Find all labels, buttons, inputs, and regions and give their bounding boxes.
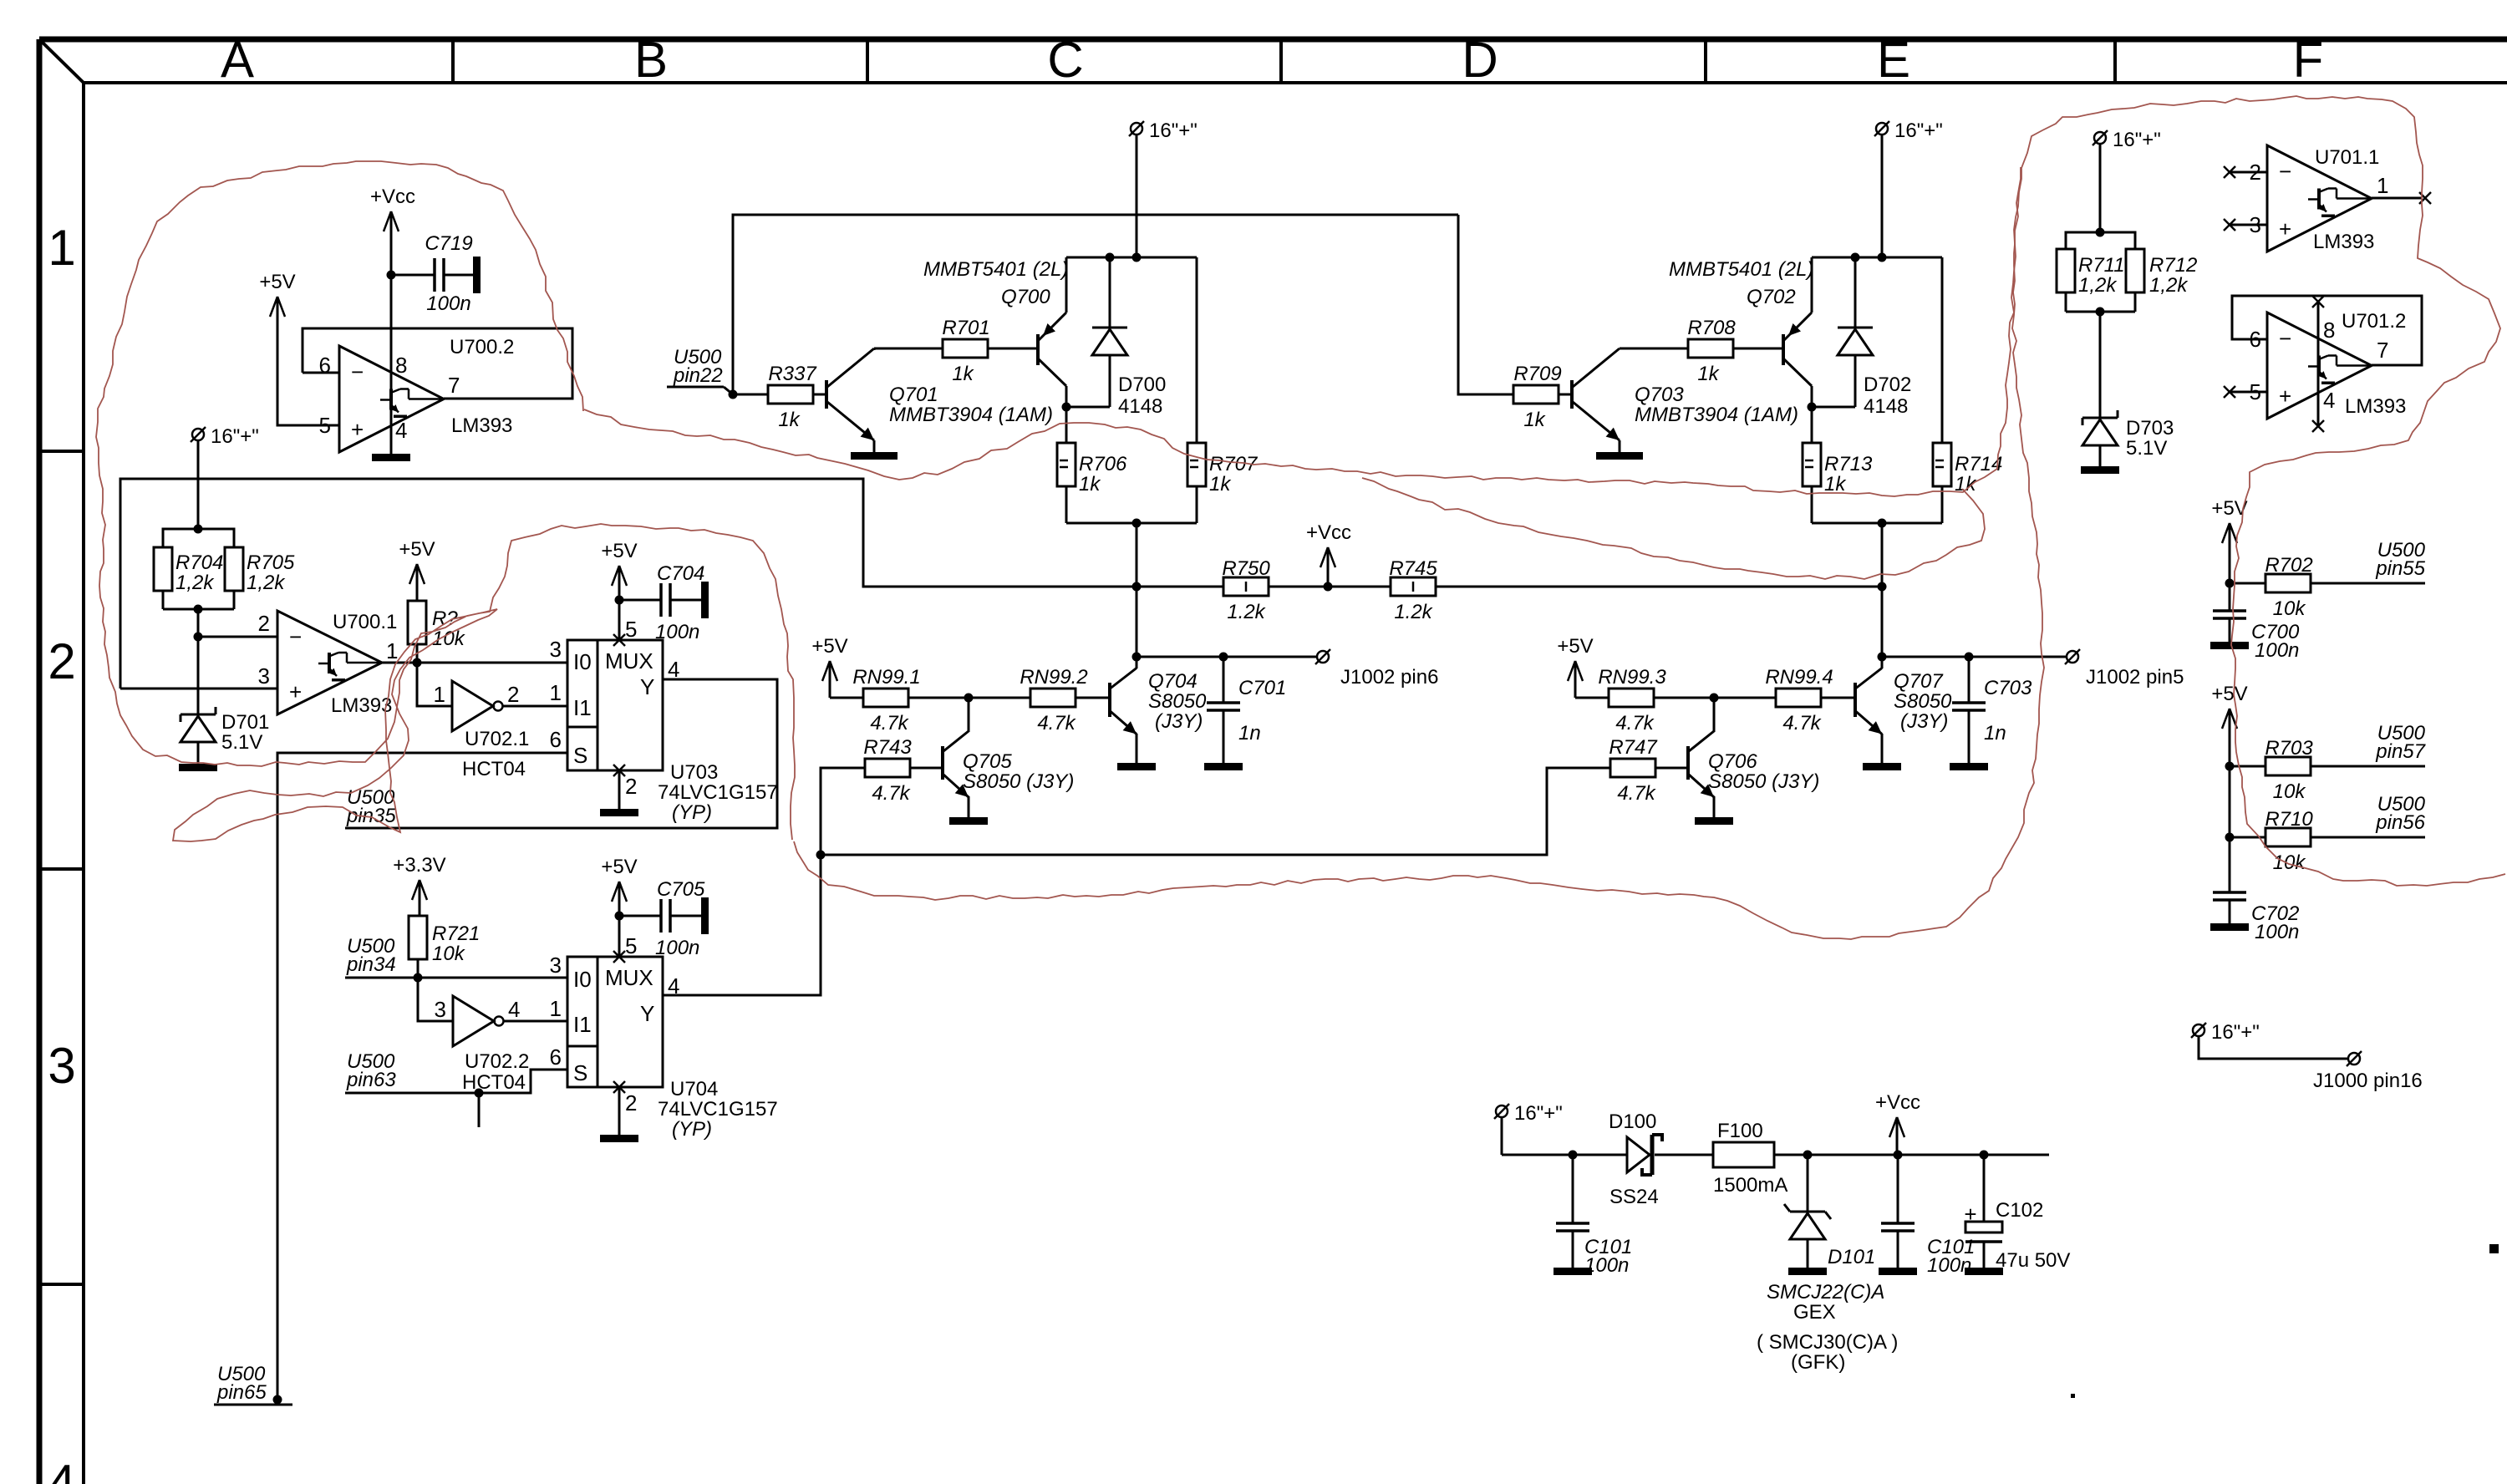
svg-text:3: 3: [48, 1038, 75, 1094]
node Vcc/C719 junction: [387, 271, 396, 280]
wire R743 left to Y-bus riser: [821, 768, 865, 855]
svg-text:I1: I1: [573, 695, 592, 720]
terminal 16"+" (A section): [191, 425, 259, 448]
node +Vcc bus junction: [1324, 582, 1333, 592]
wire junction to R337: [733, 394, 768, 396]
resistor RN99.1 4.7k: [852, 666, 920, 734]
red marker outline (left sections): [96, 161, 795, 841]
svg-text:2: 2: [258, 611, 270, 636]
svg-text:D700: D700: [1118, 374, 1166, 396]
svg-text:Y: Y: [640, 674, 654, 699]
wire U703 S to pin65 riser: [277, 753, 567, 1400]
svg-text:LM393: LM393: [2345, 395, 2406, 418]
wire node to inverter U702.2: [418, 978, 453, 1021]
svg-text:R705: R705: [247, 551, 295, 574]
node pin2 tap: [194, 633, 203, 642]
svg-text:Q705: Q705: [963, 750, 1012, 773]
svg-text:74LVC1G157: 74LVC1G157: [658, 1098, 778, 1121]
transistor Q700 MMBT5401 (2L): [923, 258, 1068, 386]
svg-text:1k: 1k: [778, 409, 801, 431]
svg-text:4: 4: [48, 1455, 75, 1484]
node RN99 junction / Q706 collector: [1710, 694, 1719, 703]
svg-text:R711: R711: [2078, 254, 2125, 277]
resistor R703 10k: [2230, 737, 2313, 803]
wire U703 pin2 to ground: [618, 770, 621, 809]
svg-text:( SMCJ30(C)A ): ( SMCJ30(C)A ): [1757, 1331, 1898, 1354]
transistor Q703 MMBT3904 (1AM): [1572, 348, 1798, 440]
node R702/C700 junction: [2225, 579, 2235, 588]
svg-text:6: 6: [550, 727, 562, 752]
svg-text:F100: F100: [1717, 1120, 1763, 1142]
svg-text:+Vcc: +Vcc: [1306, 521, 1351, 544]
node bus / Q704 branch: [1132, 582, 1142, 592]
wire R743 to Q705 base: [910, 767, 943, 770]
pin stub U701.1 output pin1: [2372, 192, 2431, 204]
inverter U702.2 HCT04: [435, 996, 530, 1094]
node C701 tap: [1219, 653, 1228, 662]
wire junction down to C700: [2229, 583, 2231, 611]
svg-text:R708: R708: [1687, 317, 1736, 339]
svg-text:4: 4: [395, 418, 407, 443]
svg-text:U700.1: U700.1: [333, 611, 397, 633]
svg-text:10k: 10k: [2273, 851, 2307, 874]
svg-text:D: D: [1462, 32, 1498, 88]
svg-text:S: S: [573, 743, 587, 768]
power flag +5V (R702): [2211, 497, 2247, 583]
resistor R708 1k: [1687, 317, 1736, 385]
wire Q701 emitter to ground: [873, 440, 876, 452]
transistor Q705 S8050 (J3Y): [943, 731, 969, 797]
svg-text:R701: R701: [942, 317, 989, 339]
svg-text:J1002 pin5: J1002 pin5: [2086, 666, 2184, 689]
svg-text:10k: 10k: [2273, 780, 2307, 803]
svg-text:(GFK): (GFK): [1791, 1351, 1845, 1374]
svg-text:100n: 100n: [426, 292, 470, 315]
svg-text:1k: 1k: [1209, 473, 1232, 496]
wire pin6 stub: [303, 372, 339, 374]
svg-text:Q707: Q707: [1894, 670, 1944, 693]
node R704/R705 top: [194, 525, 203, 534]
wire R710 to U500 pin56: [2311, 836, 2425, 839]
svg-text:1n: 1n: [1984, 722, 2006, 745]
resistor R? 10k: [408, 601, 466, 663]
svg-text:Q701: Q701: [889, 384, 938, 406]
node U500 pin65: [273, 1395, 282, 1405]
diode D700 4148: [1092, 257, 1166, 418]
ground (Q706 emitter): [1695, 817, 1733, 825]
ground (Q707 emitter): [1863, 763, 1901, 770]
svg-text:+: +: [2279, 384, 2291, 409]
svg-text:pin56: pin56: [2375, 811, 2425, 834]
power flag +5V (R?): [399, 538, 435, 601]
svg-text:4.7k: 4.7k: [872, 782, 911, 805]
net label U500 pin65: [214, 1363, 292, 1405]
resistor RN99.4 4.7k: [1765, 666, 1833, 734]
resistor R710 10k: [2230, 808, 2313, 874]
svg-text:100n: 100n: [655, 937, 699, 959]
svg-text:3: 3: [258, 663, 270, 689]
svg-text:R713: R713: [1824, 453, 1873, 475]
wire R713/R714 bottoms joined: [1812, 486, 1942, 523]
svg-text:MMBT5401 (2L): MMBT5401 (2L): [1669, 258, 1813, 281]
svg-text:4.7k: 4.7k: [1617, 782, 1656, 805]
ground (Q701 emitter): [851, 452, 898, 460]
power flag +5V (C705): [601, 856, 637, 916]
svg-text:4.7k: 4.7k: [870, 712, 909, 734]
wire pin34 to U704 I0: [345, 977, 567, 979]
wire U700.2 feedback loop pin7 to pin6: [303, 328, 572, 399]
wire down to bus D: [1881, 523, 1884, 587]
ground (Q704 emitter): [1117, 763, 1156, 770]
svg-text:U702.1: U702.1: [465, 728, 529, 750]
svg-text:16"+": 16"+": [2113, 129, 2161, 151]
svg-text:1,2k: 1,2k: [2149, 274, 2189, 297]
ground (Q705 emitter): [949, 817, 988, 825]
node RN99 junction / Q705 collector: [964, 694, 974, 703]
terminal 16"+" (F section): [2093, 129, 2161, 151]
wire Q704 emitter to ground: [1136, 734, 1138, 763]
svg-text:Y: Y: [640, 1001, 654, 1026]
wire node to J1002 pin6 terminal: [1137, 656, 1317, 658]
wire R703 to U500 pin57: [2311, 765, 2425, 768]
svg-text:MMBT5401 (2L): MMBT5401 (2L): [923, 258, 1068, 281]
ground (U703 pin2): [600, 809, 638, 816]
svg-text:pin63: pin63: [346, 1069, 396, 1091]
svg-text:R710: R710: [2265, 808, 2313, 831]
wire down to pin2 tap: [197, 609, 200, 637]
wire terminal to rail: [1881, 135, 1884, 257]
node output / R? / inverter: [413, 658, 422, 668]
resistor R747 4.7k: [1609, 736, 1658, 805]
svg-text:C102: C102: [1996, 1199, 2043, 1222]
svg-text:3: 3: [550, 953, 562, 978]
svg-text:5.1V: 5.1V: [221, 731, 262, 754]
svg-text:S8050: S8050: [1148, 690, 1207, 713]
wire pin63 to U704 S: [345, 1070, 567, 1093]
resistor R337 1k: [768, 363, 817, 431]
node pin22/R337 junction: [729, 390, 738, 399]
svg-text:5.1V: 5.1V: [2126, 437, 2167, 460]
wire down to bus: [1136, 523, 1138, 587]
svg-text:4.7k: 4.7k: [1782, 712, 1822, 734]
svg-text:Q703: Q703: [1635, 384, 1684, 406]
svg-text:1k: 1k: [1824, 473, 1847, 496]
resistor R707 1k: [1187, 443, 1259, 496]
svg-text:F: F: [2293, 32, 2324, 88]
svg-text:D100: D100: [1609, 1110, 1656, 1133]
svg-text:LM393: LM393: [451, 414, 512, 437]
wire terminal down to R704/R705: [197, 440, 200, 529]
svg-text:R709: R709: [1513, 363, 1561, 385]
node D101 tap: [1803, 1151, 1813, 1160]
capacitor C703 1n: [1952, 657, 2032, 763]
wire RN99.3 to RN99.4: [1654, 697, 1776, 699]
wire to J1000 pin16: [2199, 1036, 2348, 1059]
svg-text:4: 4: [668, 973, 679, 999]
diode D101 TVS: [1757, 1155, 1898, 1374]
svg-text:B: B: [634, 32, 668, 88]
wire Q703 emitter to ground: [1619, 440, 1621, 452]
svg-text:D703: D703: [2126, 417, 2174, 440]
wire F100 onward: [1774, 1154, 2049, 1156]
svg-text:D702: D702: [1864, 374, 1911, 396]
svg-text:2: 2: [48, 633, 75, 689]
svg-text:1: 1: [386, 638, 398, 663]
wire Q701 collector to R701: [874, 348, 943, 350]
node terminal rail D: [1878, 253, 1887, 262]
svg-text:Q704: Q704: [1148, 670, 1198, 693]
svg-text:J1000 pin16: J1000 pin16: [2313, 1070, 2423, 1092]
svg-text:pin55: pin55: [2375, 557, 2425, 580]
resistor R702 10k: [2230, 554, 2313, 620]
svg-text:LM393: LM393: [331, 694, 392, 717]
resistor R712 1,2k: [2100, 232, 2197, 312]
wire pin22 riser to top rail: [733, 215, 1458, 394]
capacitor C705 100n: [619, 878, 709, 959]
wire +Vcc to U700.2 pin8 and pin4 ground: [390, 249, 393, 454]
op-amp U701.2 (LM393): [2250, 310, 2407, 419]
svg-text:U701.1: U701.1: [2315, 146, 2379, 169]
svg-text:C701: C701: [1238, 677, 1286, 699]
wire R706/R707 bottoms joined: [1066, 486, 1197, 523]
capacitor C701 1n: [1207, 657, 1286, 763]
svg-text:pin65: pin65: [216, 1381, 267, 1404]
svg-text:Q702: Q702: [1747, 286, 1796, 308]
wire U704 pin2 to ground: [618, 1087, 621, 1135]
resistor R743 4.7k: [863, 736, 912, 805]
diode D100 SS24: [1609, 1110, 1662, 1208]
svg-text:4148: 4148: [1118, 395, 1162, 418]
svg-text:+5V: +5V: [601, 856, 637, 878]
net label U500 pin57: [2375, 722, 2426, 763]
svg-text:+: +: [289, 679, 302, 704]
wire R701 to Q700 base: [988, 348, 1038, 350]
node R704/R705 bottom: [194, 605, 203, 614]
svg-text:(YP): (YP): [672, 1118, 712, 1141]
svg-text:1: 1: [48, 220, 75, 276]
op-amp U700.2 (LM393): [319, 336, 515, 452]
wire output node to inverter U702.1: [417, 663, 452, 706]
svg-text:R747: R747: [1609, 736, 1658, 759]
node terminal rail: [1132, 253, 1142, 262]
power flag +5V (RN99.3): [1557, 635, 1593, 698]
svg-text:1: 1: [2377, 173, 2388, 198]
svg-text:U702.2: U702.2: [465, 1050, 529, 1073]
svg-text:R743: R743: [863, 736, 912, 759]
wire Q706 collector to RN99 node: [1713, 698, 1716, 732]
svg-text:+5V: +5V: [1557, 635, 1593, 658]
svg-text:1k: 1k: [1697, 363, 1720, 385]
power flag +Vcc (U700.2 supply): [370, 185, 415, 249]
wire output node to U703 I0: [417, 662, 567, 664]
wire inverter out to U704 I1: [504, 1020, 567, 1023]
svg-text:74LVC1G157: 74LVC1G157: [658, 781, 778, 804]
svg-text:S8050 (J3Y): S8050 (J3Y): [1708, 770, 1819, 793]
wire Q704 collector: [1136, 587, 1138, 668]
svg-text:1k: 1k: [1523, 409, 1546, 431]
pin stub U701.2 pin5: [2224, 386, 2267, 398]
node R710 junction: [2225, 833, 2235, 842]
node R703 junction: [2225, 762, 2235, 771]
svg-text:I1: I1: [573, 1012, 592, 1037]
svg-text:pin57: pin57: [2375, 740, 2426, 763]
svg-text:R714: R714: [1955, 453, 2002, 475]
op-amp U701.1 (LM393): [2250, 145, 2389, 253]
capacitor C702 100n: [2213, 892, 2299, 943]
wire U704 Y output to node: [663, 855, 821, 995]
svg-text:1,2k: 1,2k: [2078, 274, 2118, 297]
node Q704 collector / C701 / J1002 pin6: [1132, 653, 1142, 662]
svg-text:+Vcc: +Vcc: [370, 185, 415, 208]
node C704 junction: [615, 596, 624, 605]
svg-text:Q700: Q700: [1001, 286, 1050, 308]
svg-text:R706: R706: [1079, 453, 1127, 475]
node C101b tap: [1894, 1151, 1903, 1160]
ground (C700): [2210, 642, 2249, 649]
svg-text:pin35: pin35: [346, 805, 396, 827]
wire U700.1 output: [382, 662, 567, 664]
wire node to J1002 pin5 terminal: [1882, 656, 2067, 658]
svg-text:7: 7: [448, 373, 460, 398]
terminal J1000 pin16: [2313, 1051, 2423, 1092]
resistor RN99.2 4.7k: [1020, 666, 1087, 734]
svg-text:R702: R702: [2265, 554, 2312, 577]
wire top rail down to R709: [1458, 215, 1513, 394]
wire top rail D section: [1812, 257, 1942, 259]
svg-text:S: S: [573, 1060, 587, 1085]
resistor R750 1.2k: [1222, 557, 1270, 623]
wire Q700 collector to node: [1065, 386, 1068, 407]
svg-text:(J3Y): (J3Y): [1155, 710, 1203, 733]
svg-text:−: −: [351, 359, 364, 384]
capacitor C102 47u 50V electrolytic: [1964, 1155, 2070, 1272]
wire inverter out to U703 I1: [503, 705, 567, 708]
svg-text:R712: R712: [2149, 254, 2197, 277]
svg-text:16"+": 16"+": [211, 425, 259, 448]
transistor Q707 S8050 (J3Y): [1855, 668, 1882, 734]
svg-text:U703: U703: [670, 761, 718, 784]
svg-text:+3.3V: +3.3V: [393, 854, 445, 877]
wire RN99.1 to RN99.2: [908, 697, 1030, 699]
mux U703 74LVC1G157: [550, 617, 778, 824]
pin stub U701.1 pin3: [2224, 219, 2267, 231]
svg-text:4.7k: 4.7k: [1037, 712, 1076, 734]
resistor RN99.3 4.7k: [1598, 666, 1666, 734]
svg-text:I0: I0: [573, 649, 592, 674]
net label U500 pin35: [346, 786, 396, 827]
wire R750 to R745: [1269, 586, 1391, 588]
wire R707 top from rail: [1196, 257, 1198, 443]
resistor R713 1k: [1803, 443, 1873, 496]
resistor R711 1,2k: [2057, 232, 2125, 312]
node R711/R712 top: [2096, 228, 2105, 237]
node Y-bus junction: [816, 851, 826, 860]
svg-text:C703: C703: [1984, 677, 2032, 699]
svg-text:+: +: [1964, 1202, 1976, 1227]
wire tap down to D701: [197, 637, 200, 714]
ground (U704 pin2): [600, 1135, 638, 1142]
wire Q702 emitter to top rail: [1811, 257, 1813, 313]
ground (Q703 emitter): [1596, 452, 1643, 460]
wire +5V to U700.2 pin5: [277, 334, 339, 425]
svg-text:RN99.4: RN99.4: [1765, 666, 1833, 689]
svg-text:10k: 10k: [2273, 597, 2307, 620]
svg-text:R721: R721: [432, 922, 480, 945]
wire D100 to F100: [1655, 1154, 1713, 1156]
wire U703 pin5 to +5V/C704: [618, 600, 621, 640]
svg-text:47u 50V: 47u 50V: [1996, 1249, 2070, 1272]
pin stub U701.1 pin2: [2224, 166, 2267, 178]
node R711/R712 bottom: [2096, 307, 2105, 317]
wire Y-bus to R747 riser: [821, 768, 1610, 855]
resistor R704 1,2k: [154, 529, 223, 609]
wire long bus from U700.1 pin3 (left) across: [120, 479, 1223, 689]
ground (C102): [1965, 1268, 2003, 1275]
svg-text:SMCJ22(C)A: SMCJ22(C)A: [1767, 1281, 1884, 1304]
power flag +Vcc (bus): [1306, 521, 1351, 587]
svg-text:+5V: +5V: [259, 271, 295, 293]
power flag +5V (C704): [601, 540, 637, 600]
wire Q703 collector to R708: [1620, 348, 1688, 350]
svg-text:4148: 4148: [1864, 395, 1908, 418]
wire RN99.2 to Q704 base: [1076, 697, 1110, 699]
power flag +Vcc (output): [1875, 1091, 1920, 1155]
power flag +5V (RN99.1): [811, 635, 847, 698]
svg-text:100n: 100n: [2255, 921, 2299, 943]
capacitor C101 100n (output): [1881, 1155, 1975, 1277]
svg-text:R745: R745: [1389, 557, 1437, 580]
ground (C701): [1204, 763, 1243, 770]
terminal 16"+" (D section): [1874, 119, 1943, 142]
wire R702 to U500 pin55: [2311, 582, 2425, 585]
svg-text:−: −: [289, 624, 302, 649]
terminal 16"+" (J1000): [2191, 1021, 2260, 1044]
svg-text:1: 1: [434, 682, 445, 707]
capacitor C704 100n: [619, 562, 709, 643]
resistor R745 1.2k: [1389, 557, 1437, 623]
svg-text:RN99.3: RN99.3: [1598, 666, 1666, 689]
svg-text:HCT04: HCT04: [462, 1071, 526, 1094]
wire U704 pin5 to +5V/C705: [618, 916, 621, 957]
svg-text:1: 1: [550, 996, 562, 1021]
transistor Q704 S8050 (J3Y): [1110, 668, 1137, 734]
svg-text:R750: R750: [1222, 557, 1270, 580]
wire Q705 collector to RN99 node: [968, 698, 970, 732]
terminal J1002 pin6: [1315, 649, 1438, 689]
node Q700 collector / D700 / R706: [1062, 403, 1111, 412]
ground (D101): [1788, 1268, 1827, 1275]
svg-text:Q706: Q706: [1708, 750, 1757, 773]
svg-text:3: 3: [550, 637, 562, 662]
ground (C101 output): [1879, 1268, 1917, 1275]
wire R709 to Q703 base: [1559, 394, 1572, 396]
power flag +5V (U700.2 pin5): [259, 271, 295, 334]
svg-text:−: −: [2279, 326, 2291, 351]
net label U500 pin63: [346, 1050, 396, 1091]
diode D702 4148: [1838, 257, 1911, 418]
svg-text:E: E: [1877, 32, 1910, 88]
svg-text:2: 2: [625, 1090, 637, 1116]
svg-text:+: +: [351, 417, 364, 442]
svg-text:1.2k: 1.2k: [1394, 601, 1433, 623]
svg-text:S8050: S8050: [1894, 690, 1952, 713]
svg-text:+5V: +5V: [811, 635, 847, 658]
svg-text:1n: 1n: [1238, 722, 1261, 745]
svg-text:−: −: [2279, 159, 2291, 184]
svg-text:GEX: GEX: [1793, 1301, 1836, 1324]
node C703 tap: [1965, 653, 1974, 662]
wire Q700 emitter to top rail: [1065, 257, 1068, 313]
